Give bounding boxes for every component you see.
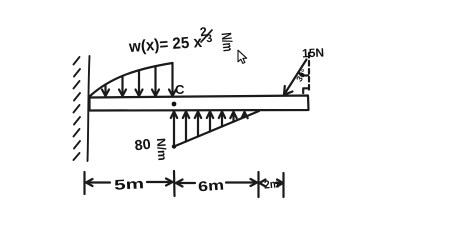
label 80 N/m — [134, 137, 170, 161]
svg-text:80: 80 — [134, 137, 152, 155]
wall — [74, 56, 90, 161]
svg-text:6m: 6m — [198, 177, 225, 195]
load arrow 5 (curve edge) — [169, 63, 176, 96]
node C dot — [172, 102, 177, 107]
dimension tick 1 — [83, 172, 85, 194]
triangular load hypotenuse — [174, 111, 259, 147]
up arrow 7 — [242, 112, 248, 118]
2m right arrow — [276, 180, 283, 187]
dimension tick 3 — [257, 172, 259, 197]
dimension tick 2 — [173, 171, 176, 196]
15N force arrow — [284, 60, 307, 95]
15N force: dashed construction line — [308, 53, 310, 93]
up arrow 2 — [183, 112, 189, 142]
5m left arrow — [86, 179, 110, 186]
distributed load curve w(x) — [90, 63, 173, 96]
equation w(x)=25x^(2/3) N/m — [128, 25, 213, 56]
svg-text:15N: 15N — [302, 45, 325, 60]
svg-text:N/m: N/m — [154, 138, 170, 162]
dimension tick 4 — [282, 173, 284, 197]
triangle vertex dot — [172, 144, 176, 148]
load arrow 4 — [152, 67, 159, 97]
up arrow 5 — [219, 112, 225, 127]
up arrow 1 — [171, 112, 177, 147]
load arrow 3 — [136, 71, 143, 96]
svg-text:2m: 2m — [264, 178, 280, 191]
6m right arrow — [226, 179, 257, 186]
load arrow 1 — [102, 85, 109, 96]
mouse cursor — [238, 50, 247, 63]
5m right arrow — [147, 179, 173, 186]
2m left arrowhead — [260, 180, 266, 187]
6m left arrow — [176, 180, 195, 187]
svg-text:5m: 5m — [114, 175, 145, 193]
load arrow 2 — [119, 77, 126, 97]
up arrow 6 — [230, 112, 236, 122]
equation units N/m (rotated) — [219, 32, 237, 53]
svg-text:C: C — [175, 82, 185, 97]
right-angle mark — [303, 88, 308, 93]
up arrow 4 — [207, 112, 213, 132]
30 deg angle arc — [299, 73, 309, 76]
svg-text:N/m: N/m — [219, 32, 237, 53]
exponent fraction slash — [201, 30, 212, 42]
up arrow 3 — [195, 112, 201, 137]
beam — [90, 96, 309, 111]
